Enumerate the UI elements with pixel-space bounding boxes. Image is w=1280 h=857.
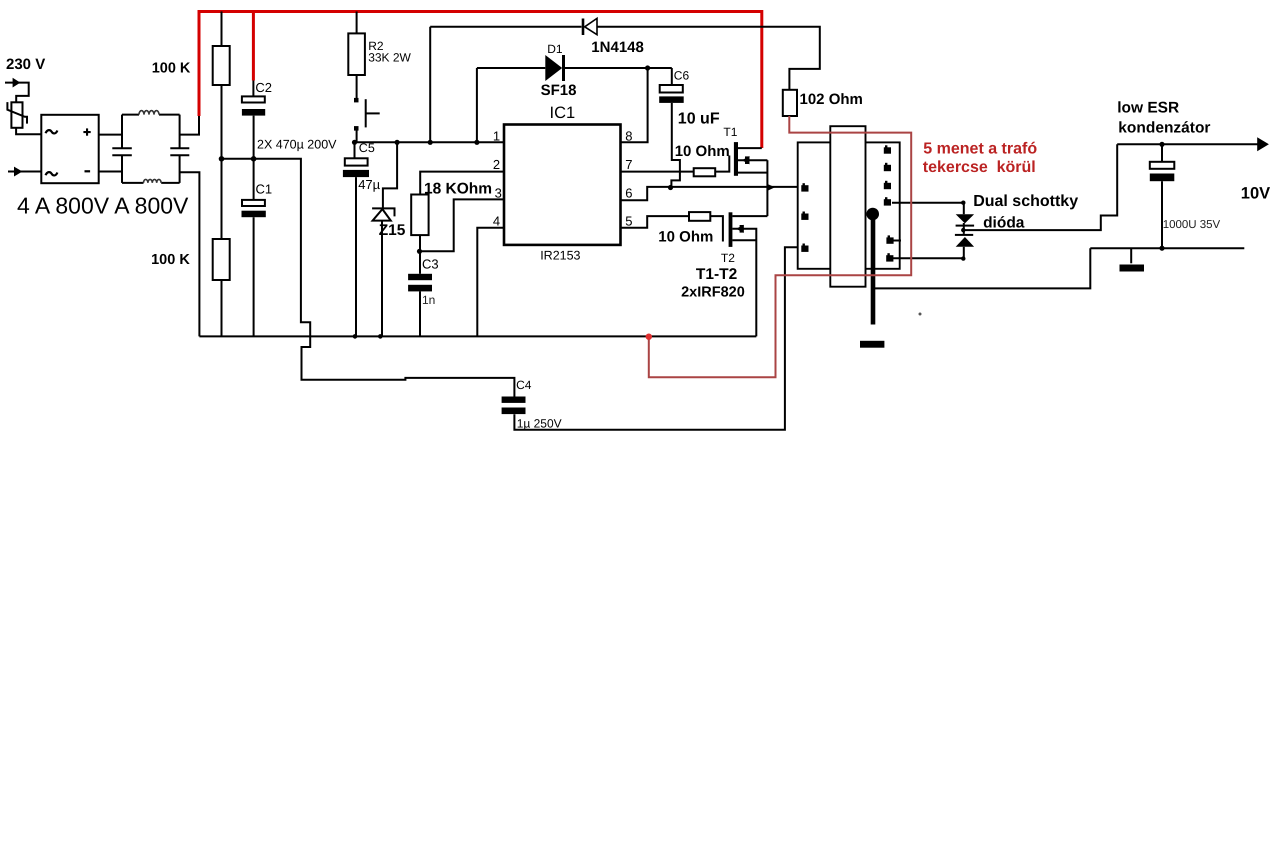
svg-text:T1-T2: T1-T2 bbox=[696, 266, 737, 283]
svg-text:Dual schottky: Dual schottky bbox=[973, 193, 1078, 210]
svg-text:1000U 35V: 1000U 35V bbox=[1163, 219, 1221, 231]
svg-text:10 Ohm: 10 Ohm bbox=[658, 228, 713, 245]
svg-text:D1: D1 bbox=[547, 42, 563, 56]
svg-text:kondenzátor: kondenzátor bbox=[1118, 120, 1210, 137]
svg-text:33K 2W: 33K 2W bbox=[368, 50, 411, 64]
svg-text:C4: C4 bbox=[516, 378, 532, 392]
svg-text:1n: 1n bbox=[422, 293, 435, 307]
svg-text:47µ: 47µ bbox=[358, 177, 380, 192]
svg-text:10V: 10V bbox=[1241, 185, 1270, 203]
svg-text:2xIRF820: 2xIRF820 bbox=[681, 285, 745, 301]
svg-text:8: 8 bbox=[625, 129, 632, 144]
svg-text:IR2153: IR2153 bbox=[540, 249, 580, 263]
svg-text:C3: C3 bbox=[422, 257, 439, 272]
svg-text:T2: T2 bbox=[721, 251, 735, 265]
svg-text:18 KOhm: 18 KOhm bbox=[424, 181, 492, 198]
svg-text:C6: C6 bbox=[674, 68, 690, 82]
svg-text:1N4148: 1N4148 bbox=[591, 39, 644, 56]
svg-text:low ESR: low ESR bbox=[1117, 100, 1179, 117]
svg-text:6: 6 bbox=[625, 185, 632, 200]
svg-text:5: 5 bbox=[625, 214, 632, 229]
svg-text:C1: C1 bbox=[256, 182, 273, 197]
svg-text:100 K: 100 K bbox=[151, 252, 190, 268]
svg-text:230 V: 230 V bbox=[6, 56, 45, 73]
svg-text:7: 7 bbox=[625, 157, 632, 172]
svg-text:C5: C5 bbox=[359, 141, 375, 155]
svg-text:tekercse körül: tekercse körül bbox=[923, 159, 1036, 176]
svg-text:T1: T1 bbox=[723, 125, 737, 139]
svg-text:102 Ohm: 102 Ohm bbox=[800, 91, 863, 108]
svg-text:10 Ohm: 10 Ohm bbox=[675, 143, 730, 160]
svg-text:4: 4 bbox=[493, 214, 500, 229]
svg-text:Z15: Z15 bbox=[379, 222, 406, 239]
svg-text:1: 1 bbox=[493, 129, 500, 144]
svg-text:2: 2 bbox=[493, 157, 500, 172]
svg-text:10 uF: 10 uF bbox=[678, 110, 720, 127]
svg-text:dióda: dióda bbox=[983, 214, 1025, 231]
svg-text:4 A 800V A 800V: 4 A 800V A 800V bbox=[17, 193, 189, 219]
svg-text:2X 470µ 200V: 2X 470µ 200V bbox=[257, 138, 337, 152]
svg-text:C2: C2 bbox=[255, 80, 272, 95]
svg-text:3: 3 bbox=[495, 185, 502, 200]
svg-text:IC1: IC1 bbox=[550, 104, 576, 122]
svg-text:SF18: SF18 bbox=[541, 82, 577, 99]
svg-text:5 menet a trafó: 5 menet a trafó bbox=[923, 140, 1037, 157]
svg-text:1µ 250V: 1µ 250V bbox=[517, 417, 562, 431]
svg-text:100 K: 100 K bbox=[152, 61, 191, 77]
